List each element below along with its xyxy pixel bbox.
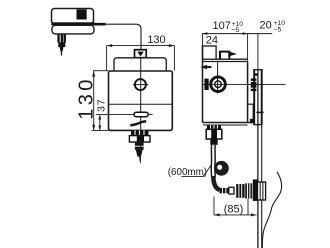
- svg-text:130: 130: [147, 34, 165, 46]
- tab down arrow: [137, 52, 144, 57]
- top line 1: [216, 58, 248, 60]
- front fitting collar (threaded): [131, 130, 149, 135]
- side fitting crimp: [210, 139, 217, 145]
- right (rear) face: [247, 62, 249, 123]
- plate bottom cap: [253, 124, 262, 126]
- side fitting collar: [207, 125, 221, 129]
- knob mount tab: [204, 79, 208, 90]
- wall break-out wavy line: [262, 172, 281, 248]
- lid (top cover): [114, 58, 166, 71]
- plug prong 3: [64, 34, 66, 43]
- plug tip: [60, 47, 64, 53]
- plug collar: [58, 42, 65, 47]
- valve crimp segments: [220, 188, 229, 193]
- side fitting nut: [206, 129, 222, 139]
- plate top screw: [255, 73, 258, 75]
- side body front face extension: [202, 34, 204, 46]
- plate top cap: [253, 69, 262, 71]
- dim line 130 height: [92, 71, 109, 131]
- svg-text:24: 24: [206, 35, 218, 47]
- rear lower panel line: [248, 103, 255, 105]
- swoosh mark under slot: [130, 121, 146, 125]
- plug prong 1: [57, 34, 59, 43]
- knob vertical centerline: [217, 62, 219, 94]
- extension line left (width dim): [106, 46, 108, 71]
- adapter lower shell: [52, 25, 94, 34]
- plug prong 2: [61, 34, 63, 43]
- extension line right (width dim): [173, 46, 175, 71]
- wall back line lower: [261, 125, 263, 248]
- valve connector sleeve: [229, 187, 234, 194]
- top line 2: [203, 61, 248, 63]
- plate screw tick: [256, 111, 263, 113]
- cord wire to unit: [106, 24, 142, 49]
- cable entry tab on lid: [135, 50, 147, 58]
- hose vertical run: [210, 145, 212, 177]
- adapter middle band: [51, 22, 94, 25]
- front fitting nut: [129, 135, 150, 142]
- side body outline: [203, 46, 253, 126]
- front direction arrow (left): [200, 65, 211, 69]
- svg-text:−5: −5: [274, 26, 282, 33]
- mounting plate front edge: [253, 70, 255, 125]
- hook direction arrow (right): [230, 52, 237, 56]
- wall escutcheon at valve: [253, 179, 258, 201]
- side top cover box (24 wide): [203, 46, 217, 59]
- extension below valve: [247, 199, 249, 215]
- extension from hose center: [213, 197, 215, 215]
- svg-text:(85): (85): [224, 203, 244, 215]
- extension line top (height dim): [93, 70, 109, 72]
- plate back / wall back line: [261, 70, 263, 125]
- circle horizontal centerline tick: [133, 84, 148, 86]
- slot right tick: [148, 114, 152, 116]
- dim arrows 107: [203, 32, 248, 35]
- hose curve to valve: [213, 176, 219, 190]
- valve big nut: [236, 184, 244, 198]
- dim line 37: [98, 115, 101, 131]
- slot (oval): [134, 112, 148, 117]
- svg-text:−5: −5: [232, 27, 240, 34]
- adapter label (dark): [77, 9, 87, 19]
- knob axis centerline: [203, 83, 286, 85]
- valve knob (side): [211, 77, 226, 92]
- svg-text:107: 107: [213, 20, 231, 32]
- leader line for (600mm): [182, 166, 211, 177]
- wall front face line: [257, 70, 259, 248]
- box vertical centerline: [140, 58, 142, 131]
- front fitting tip: [136, 150, 143, 157]
- bottom line: [203, 122, 253, 124]
- hose loop (coil): [214, 161, 229, 176]
- side body rear face extension: [247, 34, 249, 62]
- rear bottom dark corner: [250, 119, 254, 123]
- front box (controller body): [109, 71, 173, 130]
- svg-text:20: 20: [260, 19, 272, 31]
- bottom seam: [203, 124, 248, 126]
- centerline below fitting: [140, 130, 142, 163]
- sensor circle: [135, 79, 146, 90]
- valve body: [245, 183, 252, 198]
- front fitting crimp: [135, 143, 144, 150]
- dim line (85): [214, 213, 257, 216]
- rear panel vertical: [252, 104, 254, 122]
- hanger hook on top: [220, 52, 229, 60]
- AC adapter body top shell: [52, 9, 94, 24]
- side view: top dimension line: [202, 33, 272, 35]
- cord stub: [94, 23, 105, 26]
- nut at mounting plate: [251, 78, 257, 91]
- dim line 130 width: [107, 44, 175, 70]
- svg-text:37: 37: [96, 99, 108, 112]
- left (front) face: [202, 46, 204, 123]
- wall face extension: [257, 34, 259, 70]
- nut behind wall: [258, 182, 266, 200]
- extension line bottom (height dim): [92, 129, 109, 131]
- slot leader line to left: [96, 114, 134, 116]
- box seam line: [109, 103, 173, 105]
